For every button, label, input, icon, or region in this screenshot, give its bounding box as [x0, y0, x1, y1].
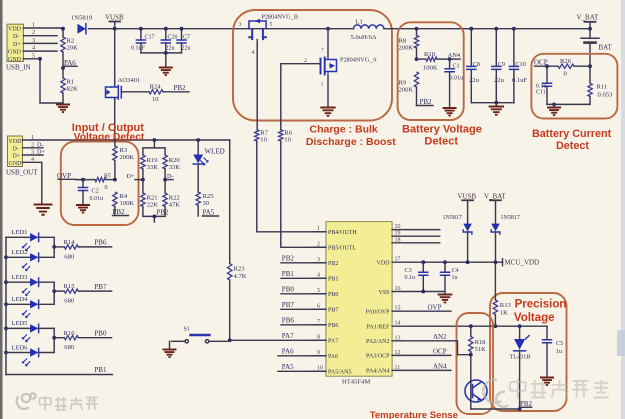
svg-text:R26: R26: [560, 58, 572, 65]
svg-text:PB7: PB7: [94, 283, 107, 291]
svg-text:VDD: VDD: [377, 261, 391, 267]
svg-text:Temperature Sense: Temperature Sense: [370, 410, 458, 419]
wire rail L1 to battery: [384, 28, 590, 30]
wire gate A to R6: [281, 64, 321, 130]
ground current detect: [547, 108, 561, 116]
wire divider bottom bracket: [143, 207, 165, 223]
svg-text:C11: C11: [536, 90, 546, 96]
svg-text:HT45F4M: HT45F4M: [342, 379, 370, 386]
svg-text:680: 680: [64, 253, 75, 260]
svg-text:30: 30: [203, 200, 210, 207]
pin numbers USB_OUT: [31, 134, 35, 163]
resistor R5 0ohm: [76, 173, 117, 191]
node AN4 stub pin11: [392, 362, 451, 370]
resistor R11: [588, 66, 613, 104]
svg-text:33K: 33K: [169, 164, 181, 171]
svg-text:C5: C5: [556, 340, 563, 347]
resistor R6: [279, 129, 293, 143]
wire AN2 pin13 path: [392, 333, 473, 357]
svg-text:0: 0: [105, 185, 108, 191]
svg-text:PB1: PB1: [328, 277, 338, 283]
svg-text:10: 10: [284, 136, 291, 143]
wire LED pair3 right: [52, 328, 56, 352]
resistor R10: [415, 51, 450, 72]
svg-text:PB0: PB0: [328, 292, 338, 298]
label Precision Voltage: [514, 299, 566, 324]
annotation box charge/discharge: [233, 10, 392, 121]
resistor R23: [228, 264, 247, 281]
svg-text:PB2: PB2: [174, 84, 187, 92]
node PB6 stub MCU: [281, 317, 326, 325]
ground below C1: [443, 108, 457, 116]
edge strip right: [617, 0, 625, 419]
capacitor C5: [543, 326, 564, 376]
resistor R7: [255, 129, 269, 143]
wire pin20 stub: [392, 229, 440, 231]
wire gate B to R7: [256, 40, 258, 130]
svg-text:R20: R20: [169, 157, 181, 164]
svg-text:C9: C9: [498, 61, 505, 68]
watermark text bottom-right: [510, 379, 609, 399]
wire rail VUSB to charge section: [115, 28, 354, 30]
node OVP left: [57, 172, 76, 180]
svg-text:C1: C1: [453, 64, 460, 70]
node AN4 right of R10: [448, 52, 461, 61]
node OCP label: [534, 59, 558, 67]
diode D2 1N5817: [443, 215, 472, 264]
svg-text:1N5819: 1N5819: [71, 15, 93, 22]
svg-text:R18: R18: [475, 339, 486, 346]
annotation box temperature sense: [457, 313, 494, 414]
diode U2 TL431B: [510, 324, 531, 409]
svg-text:PA5/AN5: PA5/AN5: [328, 370, 351, 376]
node PA7 wire MCU: [228, 332, 326, 342]
svg-text:PA1/REF: PA1/REF: [367, 325, 390, 331]
svg-text:PB5/OUTL: PB5/OUTL: [328, 246, 356, 252]
svg-text:D-: D-: [13, 34, 19, 40]
svg-text:100K: 100K: [423, 65, 438, 72]
resistor R20: [163, 155, 180, 171]
svg-text:C20: C20: [168, 35, 178, 41]
svg-text:PB0: PB0: [282, 286, 295, 294]
capacitor C20: [161, 27, 177, 53]
svg-text:22u: 22u: [166, 46, 175, 52]
wire divider top bracket: [143, 138, 165, 155]
svg-text:C10: C10: [515, 61, 525, 68]
svg-text:OCP: OCP: [433, 347, 447, 355]
svg-text:R2: R2: [67, 38, 75, 45]
LED LED5: [6, 320, 54, 342]
LED LED3: [6, 274, 54, 296]
svg-text:PA4/AN4: PA4/AN4: [366, 369, 389, 375]
svg-text:82K: 82K: [67, 86, 79, 93]
wire rail corner down to PA7: [229, 140, 231, 264]
svg-text:LED1: LED1: [12, 229, 28, 236]
node D+ stub USB_OUT: [23, 149, 46, 156]
wire VSS stub: [392, 291, 444, 293]
ground below USB_OUT: [34, 205, 53, 215]
svg-text:22K: 22K: [147, 201, 159, 208]
svg-text:VUSB: VUSB: [458, 192, 477, 200]
svg-text:R15: R15: [64, 283, 76, 290]
annotation box input/output voltage detect: [61, 142, 139, 226]
svg-text:1u: 1u: [556, 349, 562, 355]
svg-text:Precision: Precision: [515, 299, 567, 311]
node PB2 below R4: [113, 208, 129, 216]
svg-text:5.6uH/6A: 5.6uH/6A: [351, 34, 377, 41]
resistor R16: [54, 330, 111, 351]
svg-text:PA0/OVP: PA0/OVP: [366, 310, 390, 316]
wire USB_IN pin3 stub: [23, 42, 57, 44]
svg-text:AN2: AN2: [433, 333, 447, 341]
ground at S1: [163, 341, 177, 357]
svg-text:R11: R11: [597, 84, 608, 91]
IC U1 HT45F4M: [312, 222, 401, 386]
label Battery Voltage Detect: [402, 124, 482, 148]
svg-text:R6: R6: [284, 129, 292, 136]
svg-text:WLED: WLED: [205, 148, 225, 156]
wire USB_IN pin4 stub: [23, 50, 57, 52]
ground below caps: [159, 51, 173, 75]
resistor R1: [61, 67, 78, 104]
svg-text:D+: D+: [37, 149, 45, 156]
resistor R14: [54, 239, 111, 260]
resistor R13: [493, 262, 511, 328]
svg-text:R10: R10: [424, 51, 436, 58]
wire caps bottom joint: [471, 101, 514, 106]
pin numbers USB_IN 1-5: [32, 22, 36, 60]
svg-text:D-: D-: [167, 173, 174, 180]
resistor R8: [399, 27, 419, 59]
svg-text:VSS: VSS: [378, 290, 389, 296]
svg-text:V_BAT: V_BAT: [484, 192, 507, 200]
svg-text:LED6: LED6: [12, 344, 29, 351]
capacitor C3: [405, 260, 428, 293]
wire current detect bottom: [547, 103, 590, 107]
svg-text:AO3401: AO3401: [118, 77, 141, 84]
node PA5 below R25: [203, 209, 219, 217]
wire cap cluster bottom: [141, 52, 182, 54]
svg-text:D-: D-: [37, 141, 44, 148]
svg-text:R19: R19: [147, 157, 159, 164]
label Charge Bulk Discharge Boost: [306, 124, 396, 148]
node D+ junction: [127, 169, 145, 193]
resistor R26: [558, 58, 592, 78]
svg-text:BAT: BAT: [599, 44, 613, 52]
capacitor C4: [441, 260, 459, 293]
resistor R3: [113, 140, 135, 180]
svg-text:R23: R23: [234, 266, 246, 273]
svg-text:MCU_VDD: MCU_VDD: [505, 259, 540, 267]
svg-text:1u: 1u: [452, 275, 458, 281]
resistor R19: [141, 155, 159, 171]
svg-text:47K: 47K: [169, 201, 181, 208]
transistor Q3 P2804NVG_A: [304, 27, 377, 107]
node PB2 stub MCU: [281, 255, 326, 263]
node PB2 below R9: [417, 98, 434, 106]
svg-text:AN4: AN4: [448, 52, 461, 59]
svg-text:LED5: LED5: [12, 320, 28, 327]
svg-text:R24: R24: [150, 83, 162, 90]
label Input / Output Voltage Detect: [72, 122, 145, 143]
svg-text:PB0: PB0: [94, 330, 107, 338]
node D- junction: [163, 169, 173, 193]
transistor Q1 AO3401: [106, 29, 141, 140]
wire R23 to PA7 node: [229, 280, 231, 340]
wire USB_IN pin1 to rail: [23, 27, 63, 30]
svg-text:100K: 100K: [120, 200, 135, 207]
svg-text:3: 3: [239, 22, 242, 28]
svg-text:PB4/OUTH: PB4/OUTH: [328, 230, 357, 236]
svg-text:PA6: PA6: [328, 354, 338, 360]
svg-text:VDD: VDD: [8, 26, 22, 32]
svg-text:TL431B: TL431B: [510, 354, 531, 361]
LED LED1: [6, 229, 54, 251]
svg-text:R14: R14: [64, 239, 76, 246]
svg-text:Battery Voltage: Battery Voltage: [402, 124, 482, 136]
svg-text:Voltage: Voltage: [514, 312, 555, 324]
wire REF line pin14: [392, 325, 547, 327]
svg-text:1: 1: [321, 82, 324, 88]
svg-text:200K: 200K: [120, 154, 135, 161]
ground below C4: [438, 295, 453, 303]
node OVP stub pin15: [392, 303, 451, 311]
wire LED bottom PB1: [6, 366, 112, 375]
wire USB_OUT pin1 rail: [23, 139, 230, 141]
svg-text:22u: 22u: [469, 77, 480, 84]
svg-text:10: 10: [152, 96, 159, 103]
capacitor C17: [131, 27, 155, 53]
svg-text:0.01u: 0.01u: [90, 196, 104, 202]
resistor R15: [54, 283, 111, 304]
wire R6 to MCU pin2: [281, 141, 326, 247]
svg-text:PB1: PB1: [94, 366, 107, 374]
svg-text:PB1: PB1: [282, 270, 295, 278]
wire temp sense bottom: [471, 407, 522, 411]
watermark text bottom-left: [40, 396, 98, 411]
wire pin18 stub: [392, 242, 440, 244]
svg-text:D-: D-: [13, 147, 19, 153]
resistor R25: [196, 192, 214, 216]
svg-text:PA2/AN2: PA2/AN2: [366, 339, 389, 345]
svg-text:10: 10: [260, 136, 267, 143]
resistor R18: [469, 324, 486, 354]
svg-text:R5: R5: [104, 173, 111, 179]
transistor Q2 P2804NVG_B: [239, 14, 298, 57]
edge strip left: [0, 0, 3, 419]
transistor Q4 temp sensor: [465, 355, 487, 409]
svg-text:R13: R13: [500, 302, 512, 309]
svg-text:PA3/OCP: PA3/OCP: [366, 354, 390, 360]
diode D1 1N5819: [71, 15, 115, 34]
svg-text:USB_OUT: USB_OUT: [6, 169, 38, 177]
svg-text:R16: R16: [64, 330, 76, 337]
resistor R24: [121, 83, 189, 103]
svg-text:2: 2: [317, 242, 320, 248]
svg-text:GND: GND: [8, 50, 22, 56]
svg-text:20K: 20K: [67, 45, 79, 52]
svg-text:200K: 200K: [399, 86, 414, 93]
svg-text:P2804NVG_B: P2804NVG_B: [262, 14, 298, 21]
svg-text:C3: C3: [405, 267, 412, 274]
connector J1 USB_IN: [6, 24, 31, 71]
ground below C2: [76, 205, 90, 213]
wire LED pair2 right: [52, 282, 56, 304]
node PA5 stub MCU: [278, 363, 326, 371]
switch S1: [172, 327, 230, 343]
node D- stub USB_OUT: [23, 141, 44, 148]
svg-text:22u: 22u: [494, 77, 505, 84]
svg-text:5: 5: [270, 22, 273, 28]
diode D3 1N5817: [491, 215, 520, 264]
wire LED left bus: [4, 237, 8, 374]
battery BAT: [581, 29, 612, 66]
svg-text:LED2: LED2: [12, 249, 28, 256]
inductor L1: [351, 19, 384, 41]
svg-text:Battery Current: Battery Current: [532, 128, 612, 140]
svg-text:4.7K: 4.7K: [234, 273, 247, 280]
LED LED4: [6, 296, 54, 318]
capacitor C9: [492, 27, 505, 103]
svg-text:VDD: VDD: [9, 139, 23, 145]
svg-text:1K: 1K: [500, 310, 508, 317]
annotation box battery current detect: [531, 54, 617, 119]
svg-text:PA6: PA6: [282, 348, 294, 356]
svg-text:PA7: PA7: [282, 332, 294, 340]
svg-text:PB2: PB2: [157, 209, 170, 217]
ground below C9: [489, 107, 504, 115]
capacitor C8: [467, 27, 480, 103]
svg-text:PB6: PB6: [94, 239, 107, 247]
svg-text:Charge : Bulk: Charge : Bulk: [310, 124, 378, 136]
watermark logo bottom-left: [17, 393, 36, 409]
node PB7 stub MCU: [281, 301, 326, 309]
junction VUSB line to out-rail: [113, 138, 117, 142]
resistor R4: [113, 192, 135, 216]
wire USB_OUT pin4 gnd: [23, 162, 42, 203]
resistor R22: [163, 193, 180, 208]
capacitor C7: [177, 27, 191, 53]
svg-text:D+: D+: [127, 173, 135, 180]
capacitor C10: [509, 27, 527, 103]
svg-text:0.1u: 0.1u: [405, 275, 416, 281]
svg-text:AN4: AN4: [433, 362, 447, 370]
LED LED6: [6, 344, 54, 366]
svg-text:Detect: Detect: [424, 136, 458, 148]
label Battery Current Detect: [532, 128, 612, 152]
svg-text:680: 680: [64, 298, 75, 305]
ground below R1: [56, 27, 70, 112]
svg-text:OVP: OVP: [428, 303, 442, 311]
svg-text:33K: 33K: [147, 164, 159, 171]
power V_BAT top: [577, 13, 600, 30]
svg-text:0.1uF: 0.1uF: [131, 46, 146, 52]
svg-text:22u: 22u: [182, 46, 191, 52]
svg-text:C8: C8: [473, 61, 480, 68]
svg-text:S1: S1: [184, 327, 190, 333]
ground below C5: [540, 378, 554, 386]
resistor R21: [141, 193, 158, 208]
svg-text:D+: D+: [13, 42, 21, 48]
node PB1 stub MCU: [281, 270, 326, 278]
svg-text:GND: GND: [8, 57, 22, 63]
wire pin19 stub: [392, 235, 440, 237]
svg-text:51K: 51K: [475, 346, 486, 353]
resistor R9: [399, 72, 419, 106]
svg-text:LED4: LED4: [12, 296, 29, 303]
svg-text:7: 7: [321, 48, 324, 54]
svg-text:VUSB: VUSB: [105, 13, 124, 21]
capacitor C2: [79, 178, 104, 204]
svg-text:1N5817: 1N5817: [501, 215, 520, 221]
svg-text:PB6: PB6: [282, 317, 295, 325]
ground below Q3: [320, 108, 335, 116]
svg-text:PB7: PB7: [328, 308, 338, 314]
power VUSB mid: [458, 192, 477, 223]
wire USB_IN pin2 stub: [23, 35, 57, 37]
svg-text:R7: R7: [260, 129, 268, 136]
LED LED2: [6, 249, 54, 271]
wire R7 to MCU pin1: [257, 141, 326, 232]
node PB2 bottom: [520, 400, 533, 408]
svg-text:200K: 200K: [399, 44, 414, 51]
svg-text:Detect: Detect: [556, 140, 589, 152]
svg-text:C7: C7: [183, 35, 190, 41]
svg-text:0.053: 0.053: [598, 92, 614, 99]
svg-text:PB6: PB6: [328, 323, 338, 329]
svg-text:PB7: PB7: [282, 301, 295, 309]
node OCP stub pin12: [392, 347, 451, 355]
svg-text:P2804NVG_A: P2804NVG_A: [340, 57, 377, 64]
svg-text:GND: GND: [9, 161, 23, 167]
svg-text:PB2: PB2: [282, 255, 295, 263]
svg-text:0.1uF: 0.1uF: [512, 77, 528, 84]
power VUSB top: [105, 13, 124, 30]
svg-text:PB2: PB2: [328, 261, 338, 267]
svg-text:680: 680: [64, 344, 75, 351]
watermark logo bottom-right: [483, 380, 508, 407]
connector J2 USB_OUT: [6, 136, 38, 177]
wire LED pair1 right: [52, 237, 56, 257]
svg-text:1N5817: 1N5817: [443, 215, 462, 221]
wire VDD rail MCU_VDD: [392, 259, 502, 266]
svg-text:LED3: LED3: [12, 274, 28, 281]
resistor R2: [61, 29, 78, 67]
svg-text:4: 4: [252, 50, 255, 56]
svg-text:PA7: PA7: [328, 339, 338, 345]
node PA6 stub MCU: [278, 348, 326, 356]
svg-text:PA5: PA5: [282, 363, 294, 371]
svg-text:C4: C4: [452, 267, 459, 274]
annotation box battery voltage detect: [398, 22, 464, 120]
node PB0 stub MCU: [281, 286, 326, 294]
svg-text:Discharge : Boost: Discharge : Boost: [306, 136, 396, 148]
capacitor C1: [445, 59, 463, 107]
annotation box precision voltage: [490, 293, 567, 411]
wire USB_IN pin5 to ground: [23, 57, 63, 103]
capacitor C11: [536, 64, 552, 104]
svg-text:C17: C17: [145, 35, 155, 41]
svg-text:R1: R1: [67, 79, 75, 86]
svg-text:1: 1: [317, 226, 320, 232]
svg-text:0.01u: 0.01u: [450, 76, 464, 82]
svg-text:USB_IN: USB_IN: [6, 64, 31, 72]
svg-text:C2: C2: [92, 188, 99, 195]
node PB2 at R24: [174, 84, 187, 92]
LED WLED: [193, 138, 225, 192]
node PA6: [61, 59, 77, 70]
svg-text:D+: D+: [13, 154, 21, 160]
